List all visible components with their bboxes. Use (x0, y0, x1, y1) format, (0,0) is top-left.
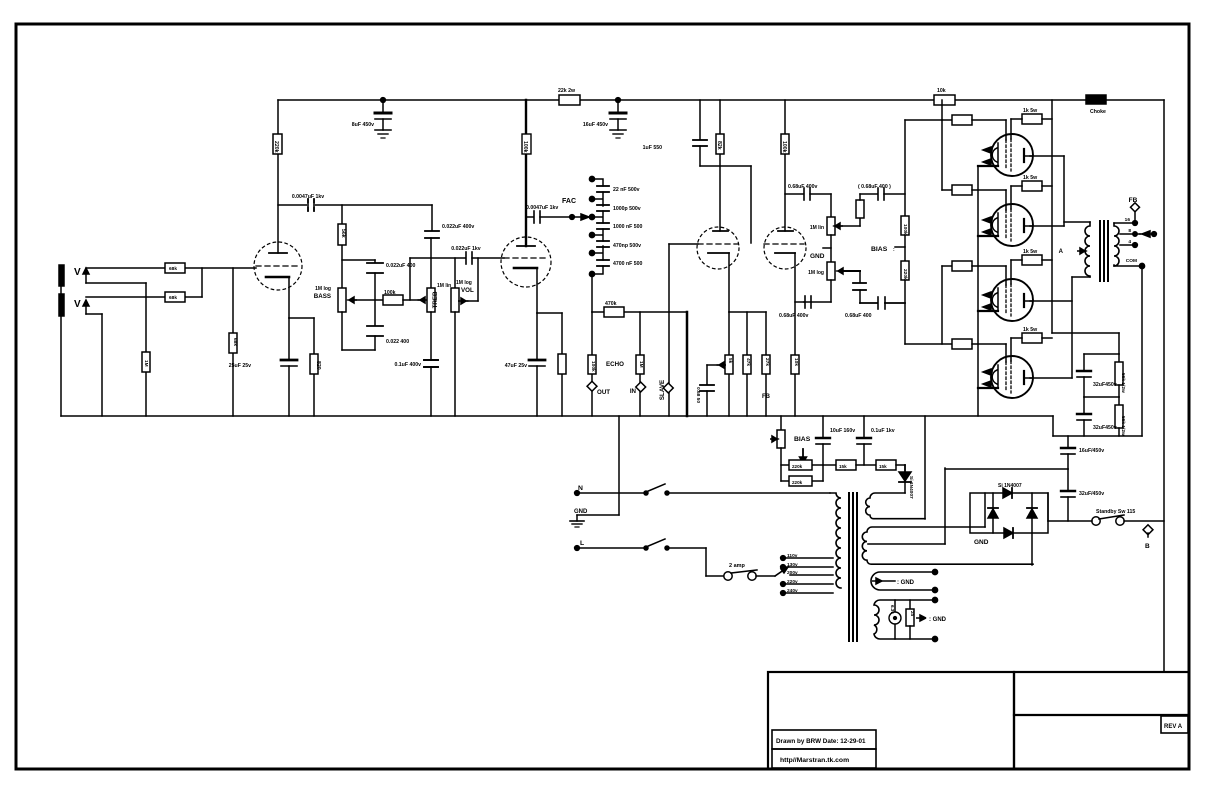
svg-text:GND: GND (810, 253, 825, 260)
svg-text:8uF 450v: 8uF 450v (352, 122, 374, 128)
svg-text:15k: 15k (839, 464, 847, 469)
svg-text:0.022uF 400: 0.022uF 400 (386, 263, 416, 269)
svg-text:ECHO: ECHO (606, 361, 624, 368)
svg-text:100k: 100k (522, 141, 528, 153)
svg-text:6.3v: 6.3v (890, 605, 895, 614)
svg-text:Choke: Choke (1090, 109, 1106, 115)
svg-text:100k: 100k (781, 141, 787, 153)
svg-text:1M log: 1M log (315, 286, 331, 292)
svg-text:10k: 10k (937, 88, 946, 94)
svg-text:SLAVE: SLAVE (659, 380, 666, 400)
svg-text:68k: 68k (169, 295, 177, 301)
svg-text:16uF 450v: 16uF 450v (583, 122, 608, 128)
svg-text:470k: 470k (605, 301, 617, 307)
svg-text:FAC: FAC (562, 198, 576, 205)
svg-text:5k: 5k (727, 358, 733, 364)
svg-text:68k: 68k (232, 338, 238, 346)
svg-text:16uF/450v: 16uF/450v (1079, 448, 1104, 454)
svg-text:VOL: VOL (461, 287, 474, 294)
svg-text:32uF450v: 32uF450v (1093, 382, 1117, 388)
svg-text:8: 8 (1128, 228, 1131, 234)
svg-text:56k 1/2w: 56k 1/2w (1120, 373, 1126, 393)
svg-text:2 amp: 2 amp (729, 563, 746, 569)
svg-text:N: N (578, 485, 583, 492)
svg-text:GND: GND (574, 509, 588, 515)
svg-text:Standby Sw 115: Standby Sw 115 (1096, 509, 1135, 515)
svg-text:220v: 220v (787, 579, 798, 585)
svg-text:1M log: 1M log (808, 270, 824, 276)
svg-text:1k 5w: 1k 5w (1023, 327, 1038, 333)
svg-text:0.68uF 400v: 0.68uF 400v (779, 313, 809, 319)
svg-text:32uF450v: 32uF450v (1093, 425, 1117, 431)
svg-text:0.022uF 400v: 0.022uF 400v (442, 224, 474, 230)
svg-text:100k: 100k (590, 361, 596, 372)
svg-text:FB: FB (1129, 197, 1138, 204)
svg-text:TREB: TREB (432, 291, 439, 308)
svg-text:: GND: : GND (897, 580, 915, 586)
svg-text:REV A: REV A (1164, 724, 1183, 730)
svg-text:25uF 25v: 25uF 25v (229, 363, 251, 369)
svg-text:0.68 50: 0.68 50 (695, 387, 701, 403)
svg-text:220k: 220k (273, 141, 279, 153)
svg-text:2a: 2a (910, 611, 915, 617)
svg-text:: GND: : GND (929, 617, 947, 623)
svg-text:1000 nF 500: 1000 nF 500 (613, 224, 643, 230)
svg-text:BASS: BASS (314, 293, 331, 300)
svg-text:47uF 25v: 47uF 25v (505, 363, 527, 369)
svg-text:Si 1N4007: Si 1N4007 (998, 483, 1022, 489)
svg-text:0.022uF 1kv: 0.022uF 1kv (451, 246, 481, 252)
svg-text:1uF 550: 1uF 550 (643, 145, 662, 151)
svg-text:16: 16 (1125, 217, 1131, 223)
svg-text:GND: GND (974, 539, 989, 546)
svg-text:1000p 500v: 1000p 500v (613, 206, 641, 212)
svg-text:820: 820 (315, 361, 321, 370)
svg-text:470np 500v: 470np 500v (613, 243, 641, 249)
svg-text:0.0047uF 1kv: 0.0047uF 1kv (526, 205, 558, 211)
svg-text:1k 5w: 1k 5w (1023, 175, 1038, 181)
svg-text:32uF/450v: 32uF/450v (1079, 491, 1104, 497)
svg-text:1k 5w: 1k 5w (1023, 108, 1038, 114)
svg-text:1M: 1M (143, 360, 149, 367)
svg-text:110v: 110v (787, 553, 798, 559)
svg-text:220k: 220k (902, 269, 908, 280)
svg-text:http//Marstran.tk.com: http//Marstran.tk.com (780, 757, 849, 764)
svg-text:240v: 240v (787, 588, 798, 594)
svg-text:0.68uF 400: 0.68uF 400 (845, 313, 872, 319)
svg-text:0.1uF 400v: 0.1uF 400v (394, 362, 421, 368)
svg-text:220k: 220k (792, 480, 803, 485)
svg-text:1M: 1M (638, 361, 644, 368)
svg-text:220k: 220k (792, 464, 803, 469)
svg-text:Drawn by BRW Date: 12-29-01: Drawn by BRW Date: 12-29-01 (776, 738, 866, 745)
svg-text:200v: 200v (787, 570, 798, 576)
svg-text:BIAS: BIAS (871, 246, 888, 253)
svg-text:0.0047uF 1kv: 0.0047uF 1kv (292, 194, 324, 200)
svg-text:10k: 10k (793, 358, 799, 366)
svg-text:V: V (74, 267, 81, 278)
svg-text:Si 1N4007: Si 1N4007 (908, 476, 914, 499)
svg-text:10uF 160v: 10uF 160v (830, 428, 855, 434)
svg-text:( 0.68uF 400 ): ( 0.68uF 400 ) (858, 184, 891, 190)
svg-text:0.1uF 1kv: 0.1uF 1kv (871, 428, 895, 434)
svg-text:100k: 100k (902, 224, 908, 235)
svg-text:FB: FB (762, 394, 771, 400)
svg-text:L: L (580, 540, 584, 547)
svg-text:1M lin: 1M lin (810, 225, 824, 231)
svg-text:56k 1/2w: 56k 1/2w (1120, 416, 1126, 436)
svg-text:0.022 400: 0.022 400 (386, 339, 409, 345)
svg-text:100k: 100k (384, 290, 396, 296)
svg-text:22 nF 500v: 22 nF 500v (613, 187, 640, 193)
svg-text:COM: COM (1126, 258, 1137, 264)
svg-text:27k: 27k (764, 358, 770, 366)
svg-text:4700 nF 500: 4700 nF 500 (613, 261, 643, 267)
svg-text:22k 2w: 22k 2w (558, 88, 576, 94)
svg-text:1k 5w: 1k 5w (1023, 249, 1038, 255)
svg-text:V: V (74, 299, 81, 310)
svg-text:82k: 82k (716, 141, 722, 150)
svg-text:B: B (1145, 543, 1150, 550)
svg-text:15k: 15k (879, 464, 887, 469)
svg-text:BIAS: BIAS (794, 436, 811, 443)
svg-text:0.68uF 400v: 0.68uF 400v (788, 184, 818, 190)
svg-text:1M lin: 1M lin (437, 283, 451, 289)
svg-text:47k: 47k (745, 358, 751, 366)
svg-text:56k: 56k (340, 229, 346, 238)
svg-text:OUT: OUT (597, 389, 610, 396)
svg-text:4: 4 (1128, 239, 1131, 245)
svg-text:68k: 68k (169, 266, 177, 272)
svg-text:130v: 130v (787, 562, 798, 568)
svg-text:IN: IN (630, 388, 637, 395)
svg-text:A: A (1059, 249, 1064, 255)
svg-text:1M log: 1M log (456, 280, 472, 286)
